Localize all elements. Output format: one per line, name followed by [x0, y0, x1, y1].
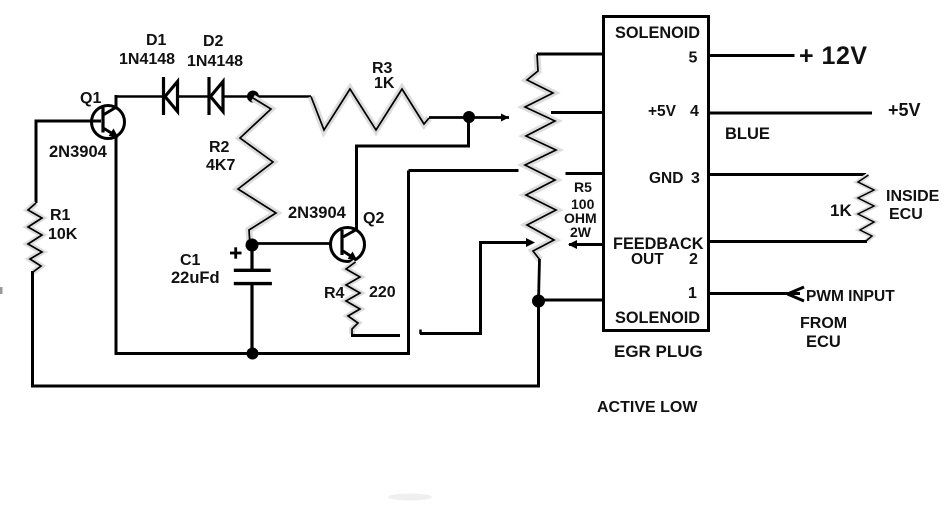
svg-text:ECU: ECU [806, 333, 841, 351]
svg-text:Q1: Q1 [80, 90, 101, 107]
resistor R2 [238, 98, 276, 245]
svg-text:FROM: FROM [800, 315, 847, 332]
svg-text:Q2: Q2 [363, 210, 384, 227]
svg-text:R1: R1 [50, 207, 71, 224]
wire feedback arrowhead right [526, 238, 535, 247]
node junction dot at R2 bottom / Q2 base [246, 239, 259, 252]
wire junction down to bottom rail [537, 301, 540, 388]
stray scan mark left edge [0, 287, 3, 294]
svg-text:R4: R4 [324, 285, 345, 302]
wire pin5 right to +12V [708, 54, 795, 57]
capacitor C1 [234, 245, 272, 354]
svg-text:+5V: +5V [888, 100, 921, 120]
svg-text:+ 12V: + 12V [799, 42, 868, 70]
wire R1 bottom vertical [31, 271, 34, 386]
svg-text:EGR PLUG: EGR PLUG [614, 342, 703, 361]
wire pin4 right to +5V [708, 112, 872, 115]
transistor Q1 [92, 106, 125, 139]
wire pin2 arrowhead pointing left [568, 240, 577, 249]
svg-text:D2: D2 [203, 33, 224, 50]
wire pin4 left segment to box [551, 111, 605, 114]
resistor R3 [311, 89, 429, 130]
diode D2 [209, 77, 223, 115]
svg-text:4K7: 4K7 [206, 157, 235, 174]
wire pin1 from junction to box [539, 299, 606, 302]
svg-text:SOLENOID: SOLENOID [615, 24, 700, 42]
svg-text:10K: 10K [48, 226, 78, 243]
wire +5V left segment arrowhead [501, 114, 509, 122]
resistor 1K inside ECU [858, 175, 874, 241]
wire D1 to D2 [178, 95, 210, 98]
wire inner ground rail [115, 352, 411, 355]
svg-text:ACTIVE LOW: ACTIVE LOW [597, 399, 698, 416]
transistor Q2 [331, 228, 365, 262]
svg-text:R5: R5 [574, 179, 592, 195]
svg-text:SOLENOID: SOLENOID [615, 309, 700, 327]
svg-text:2W: 2W [570, 224, 592, 240]
svg-text:4: 4 [690, 103, 699, 120]
connector box EGR PLUG [604, 17, 709, 331]
wire feedback left path [420, 243, 530, 334]
wire node down to Q2 collector [357, 117, 469, 230]
svg-text:1K: 1K [374, 75, 395, 92]
wire top rail Q1 to D1 [115, 95, 164, 98]
label plus sign C1 [230, 247, 242, 258]
svg-text:1N4148: 1N4148 [119, 51, 175, 68]
node junction dot C1 bottom on ground rail [247, 348, 259, 360]
svg-text:C1: C1 [180, 252, 201, 269]
svg-text:2: 2 [689, 251, 698, 268]
svg-text:220: 220 [369, 284, 396, 301]
svg-text:D1: D1 [146, 32, 167, 49]
wire R3 to node [429, 116, 509, 119]
wire Q1 collector up [115, 95, 118, 108]
svg-text:1K: 1K [830, 201, 852, 220]
svg-text:1N4148: 1N4148 [187, 53, 243, 70]
resistor R4 [346, 262, 360, 334]
PWM input arrowhead [788, 287, 805, 301]
svg-text:1: 1 [688, 285, 697, 302]
wire GND pin3 left segment [409, 169, 519, 172]
svg-text:INSIDE: INSIDE [886, 188, 940, 205]
resistor R1 [28, 203, 42, 272]
node junction dot R3 right [463, 111, 475, 123]
svg-text:BLUE: BLUE [725, 125, 770, 143]
svg-text:R2: R2 [209, 139, 230, 156]
svg-text:+5V: +5V [648, 103, 677, 120]
wire pin3 right-of-R5 segment to box [566, 172, 606, 175]
diode D1 [164, 77, 178, 115]
svg-text:OUT: OUT [631, 251, 664, 268]
resistor R5 [525, 54, 556, 260]
wire pin1 right to PWM arrow [708, 292, 800, 295]
svg-text:22uFd: 22uFd [171, 269, 220, 287]
wire D2 to R3 [223, 95, 311, 98]
wire pin3 right to 1K [708, 173, 866, 176]
svg-text:2N3904: 2N3904 [288, 204, 347, 222]
wire left vertical from Q1 base to R1 [35, 120, 38, 204]
svg-text:2N3904: 2N3904 [49, 143, 108, 161]
svg-text:3: 3 [691, 170, 700, 187]
node junction dot R5 bottom / pin1 [532, 295, 545, 308]
wire pin2 right to 1K bottom [708, 240, 867, 243]
wire R5 bottom to junction [539, 259, 540, 301]
wire pin5 left (solenoid top) [537, 53, 605, 56]
svg-text:GND: GND [649, 170, 683, 187]
svg-text:PWM INPUT: PWM INPUT [806, 288, 895, 305]
svg-text:5: 5 [689, 50, 698, 67]
wire Q2 base lead [252, 242, 332, 245]
wire GND vertical down to ground rail [407, 171, 410, 354]
wire bottom rail [31, 385, 539, 388]
wire R4 bottom lead [351, 334, 400, 337]
wire Q1 emitter down [115, 135, 118, 355]
wire pin2 segment to box [569, 243, 605, 246]
svg-text:ECU: ECU [889, 206, 923, 223]
node junction dot at R2 top [247, 91, 259, 103]
wire Q1 base lead [36, 120, 101, 123]
